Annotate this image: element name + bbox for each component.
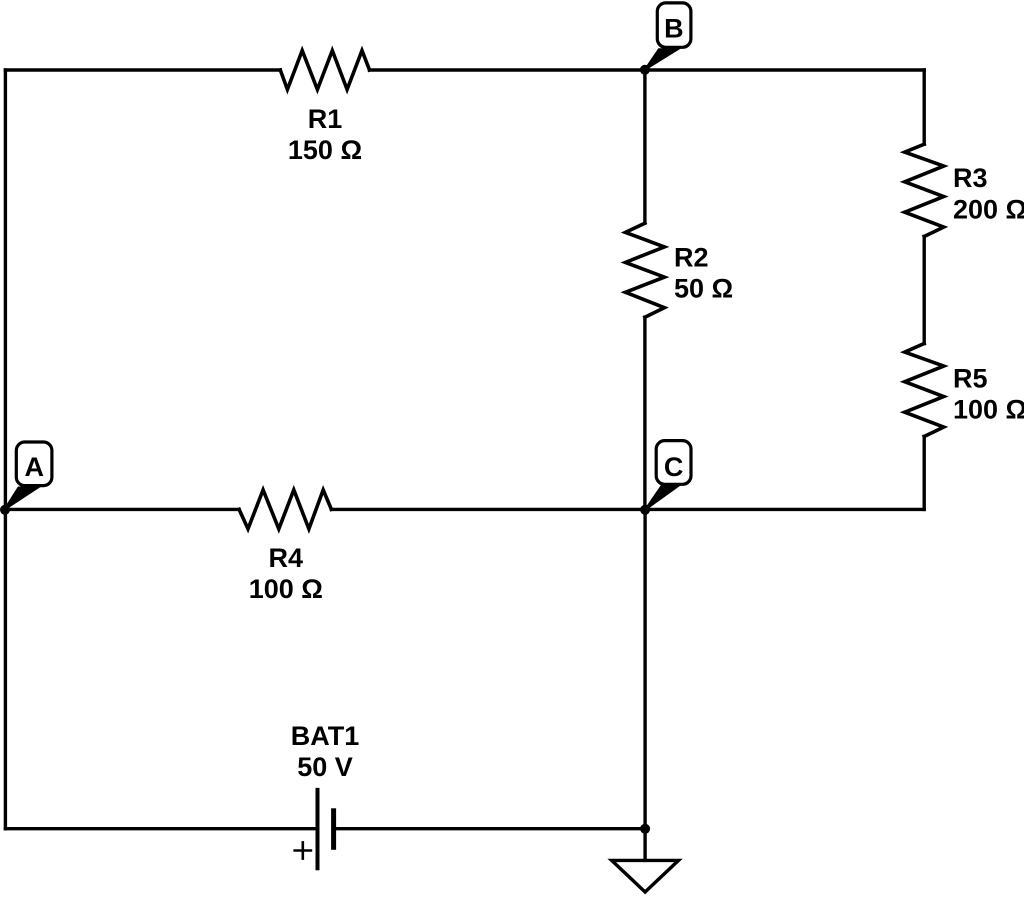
wire R2 to node C xyxy=(643,317,646,509)
resistor R3 xyxy=(905,144,944,236)
wire node A to R4 xyxy=(5,508,239,511)
svg-text:150 Ω: 150 Ω xyxy=(288,135,362,165)
wire node B down to R2 xyxy=(643,70,646,223)
svg-text:C: C xyxy=(664,452,684,482)
wire R3 to R5 xyxy=(923,237,926,344)
svg-text:200 Ω: 200 Ω xyxy=(953,194,1024,224)
svg-text:R4: R4 xyxy=(269,543,304,573)
resistor R2 xyxy=(625,223,664,317)
wire bottom left to battery xyxy=(5,827,315,830)
bottom junction dot xyxy=(640,824,650,834)
svg-text:R1: R1 xyxy=(308,104,343,134)
wire R5 to C line xyxy=(923,437,926,510)
node C junction dot xyxy=(640,505,650,515)
wire R1 to top-right corner through node B xyxy=(370,68,925,71)
svg-text:50 V: 50 V xyxy=(297,752,353,782)
wire left vertical A side xyxy=(4,70,7,829)
svg-text:100 Ω: 100 Ω xyxy=(249,574,323,604)
svg-text:B: B xyxy=(664,13,684,43)
node A flag xyxy=(5,442,52,510)
wire ground stub xyxy=(643,829,646,861)
node C flag xyxy=(645,441,691,510)
svg-text:R3: R3 xyxy=(953,163,988,193)
svg-text:50 Ω: 50 Ω xyxy=(674,273,733,303)
battery BAT1 xyxy=(293,788,333,870)
resistor R4 xyxy=(239,490,331,529)
wire right vertical to R3 xyxy=(923,70,926,144)
svg-text:BAT1: BAT1 xyxy=(291,721,360,751)
node B flag xyxy=(645,3,691,70)
svg-text:R5: R5 xyxy=(953,363,988,393)
ground xyxy=(612,860,679,892)
svg-text:A: A xyxy=(24,452,44,482)
svg-text:R2: R2 xyxy=(674,243,709,273)
wire R4 to right edge through node C xyxy=(331,508,924,511)
wire battery to bottom node xyxy=(335,827,645,830)
wire top left to R1 xyxy=(5,68,280,71)
svg-text:100 Ω: 100 Ω xyxy=(953,395,1024,425)
resistor R5 xyxy=(905,344,944,437)
node A junction dot xyxy=(0,505,10,515)
node B junction dot xyxy=(640,65,650,75)
wire node C down to bottom xyxy=(643,509,646,828)
resistor R1 xyxy=(280,51,369,90)
